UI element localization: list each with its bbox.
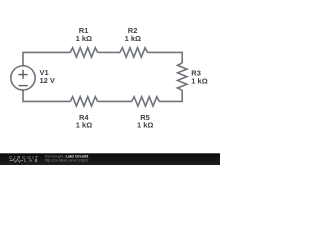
svg-text:LAB: LAB [24, 158, 37, 163]
svg-text:1 kΩ: 1 kΩ [125, 34, 141, 43]
svg-text:1 kΩ: 1 kΩ [76, 34, 92, 43]
svg-text:1 kΩ: 1 kΩ [191, 77, 207, 86]
svg-text:http://circuitlab.com/c/13j697: http://circuitlab.com/c/13j697 [45, 158, 89, 162]
svg-text:1 kΩ: 1 kΩ [137, 120, 153, 129]
svg-text:1 kΩ: 1 kΩ [76, 120, 92, 129]
svg-text:12 V: 12 V [40, 76, 55, 85]
